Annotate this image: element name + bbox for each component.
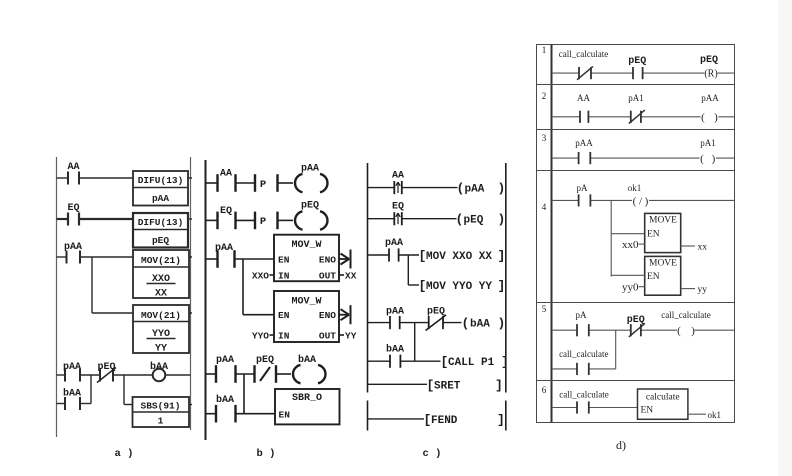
svg-text:MOV(21): MOV(21) [141, 310, 181, 321]
svg-text:XXO: XXO [252, 271, 269, 282]
svg-text:yy: yy [698, 285, 708, 295]
svg-text:a ): a ) [115, 448, 134, 460]
svg-text:EN: EN [647, 230, 660, 240]
svg-text:(: ( [700, 153, 704, 165]
svg-text:call_calculate: call_calculate [559, 390, 608, 400]
svg-text:P: P [260, 216, 266, 228]
svg-text:): ) [712, 153, 716, 165]
svg-text:EQ: EQ [220, 206, 232, 217]
svg-text:(: ( [462, 316, 470, 331]
svg-text:2: 2 [542, 91, 547, 101]
svg-text:pAA: pAA [152, 193, 169, 204]
svg-text:yy0: yy0 [622, 282, 639, 294]
svg-text:EN: EN [278, 255, 290, 266]
svg-text:pEQ: pEQ [700, 55, 718, 66]
svg-text:pEQ: pEQ [301, 201, 319, 212]
svg-text:(: ( [633, 195, 637, 207]
svg-text:bAA: bAA [63, 388, 81, 400]
svg-text:MOV YYO YY: MOV YYO YY [426, 281, 492, 293]
svg-text:5: 5 [542, 304, 547, 314]
svg-text:pA1: pA1 [628, 93, 644, 103]
svg-text:calculate: calculate [646, 393, 680, 403]
svg-text:call_calculate: call_calculate [661, 310, 710, 320]
svg-text:xx0: xx0 [622, 239, 639, 251]
svg-text:(: ( [457, 181, 465, 196]
svg-text:call_calculate: call_calculate [559, 49, 608, 59]
svg-text:): ) [498, 181, 506, 196]
svg-text:CALL P1: CALL P1 [448, 357, 495, 369]
svg-text:bAA: bAA [298, 354, 316, 366]
svg-text:pEQ: pEQ [628, 56, 646, 67]
svg-text:pAA: pAA [701, 93, 719, 103]
svg-text:]: ] [501, 355, 509, 370]
svg-text:SBS(91): SBS(91) [141, 401, 181, 412]
svg-text:bAA: bAA [470, 319, 490, 331]
svg-text:1: 1 [542, 45, 547, 55]
svg-text:ENO: ENO [319, 310, 336, 321]
svg-text:): ) [645, 195, 649, 207]
svg-text:DIFU(13): DIFU(13) [138, 175, 184, 186]
svg-text:XXO: XXO [152, 274, 170, 285]
svg-text:pAA: pAA [216, 355, 234, 366]
svg-text:pAA: pAA [301, 164, 319, 175]
svg-text:YY: YY [345, 331, 357, 342]
svg-text:pAA: pAA [64, 242, 82, 253]
svg-text:pA: pA [576, 310, 588, 320]
svg-text:): ) [498, 316, 506, 331]
svg-text:SRET: SRET [434, 380, 461, 392]
svg-text:3: 3 [542, 133, 547, 143]
svg-text:pEQ: pEQ [627, 315, 645, 326]
svg-text:]: ] [498, 279, 506, 294]
svg-text:EQ: EQ [67, 203, 79, 214]
svg-text:P: P [260, 179, 266, 191]
svg-text:pAA: pAA [386, 307, 404, 318]
svg-text:4: 4 [542, 202, 547, 212]
svg-text:pA1: pA1 [700, 138, 716, 148]
svg-text:c ): c ) [423, 448, 442, 460]
svg-text:pEQ: pEQ [427, 307, 445, 318]
svg-text:pAA: pAA [575, 138, 593, 148]
svg-text:pEQ: pEQ [256, 355, 274, 366]
svg-text:YY: YY [155, 344, 167, 355]
svg-text:pEQ: pEQ [464, 215, 484, 227]
svg-text:IN: IN [278, 331, 290, 342]
svg-text:): ) [498, 212, 506, 227]
svg-text:AA: AA [220, 169, 232, 180]
svg-text:bAA: bAA [216, 394, 234, 406]
svg-text:bAA: bAA [150, 361, 168, 373]
svg-text:xx: xx [698, 243, 708, 253]
svg-text:pAA: pAA [215, 243, 233, 254]
svg-text:call_calculate: call_calculate [559, 349, 608, 359]
svg-text:YYO: YYO [252, 331, 269, 342]
svg-text:EN: EN [278, 310, 290, 321]
svg-text:pA: pA [577, 183, 589, 193]
svg-text:SBR_O: SBR_O [292, 393, 322, 404]
svg-text:EN: EN [647, 272, 660, 282]
svg-text:MOVE: MOVE [649, 216, 677, 226]
svg-text:(R): (R) [704, 68, 717, 79]
svg-text:]: ] [497, 412, 505, 427]
svg-text:(: ( [701, 112, 705, 124]
svg-text:MOV_W: MOV_W [291, 240, 321, 251]
svg-text:YYO: YYO [152, 329, 170, 340]
svg-text:IN: IN [278, 271, 290, 282]
svg-text:pAA: pAA [63, 362, 81, 373]
svg-text:pEQ: pEQ [152, 235, 169, 246]
svg-text:MOV(21): MOV(21) [141, 255, 181, 266]
svg-text:bAA: bAA [386, 344, 404, 356]
svg-text:(: ( [456, 212, 464, 227]
svg-text:OUT: OUT [319, 331, 336, 342]
svg-text:ok1: ok1 [628, 183, 642, 193]
svg-text:1: 1 [158, 416, 164, 427]
svg-text:): ) [691, 325, 695, 337]
svg-text:FEND: FEND [431, 415, 458, 427]
svg-text:XX: XX [345, 271, 357, 282]
svg-text:AA: AA [577, 93, 590, 103]
svg-text:OUT: OUT [319, 271, 336, 282]
svg-text:EQ: EQ [392, 202, 404, 213]
svg-text:): ) [714, 112, 718, 124]
svg-text:AA: AA [392, 171, 404, 182]
svg-text:DIFU(13): DIFU(13) [138, 217, 184, 228]
svg-text:6: 6 [542, 385, 547, 395]
svg-text:pAA: pAA [465, 184, 485, 196]
svg-text:AA: AA [67, 162, 79, 173]
svg-text:MOV_W: MOV_W [291, 297, 321, 308]
svg-text:MOVE: MOVE [649, 259, 677, 269]
svg-text:b ): b ) [257, 448, 276, 460]
svg-text:ENO: ENO [319, 255, 336, 266]
svg-text:EN: EN [279, 410, 291, 421]
svg-text:MOV XXO XX: MOV XXO XX [426, 251, 492, 263]
svg-text:pEQ: pEQ [97, 362, 115, 373]
svg-text:(: ( [677, 325, 681, 337]
svg-text:d): d) [616, 438, 626, 452]
svg-text:EN: EN [641, 406, 654, 416]
svg-text:ok1: ok1 [708, 410, 722, 420]
svg-text:XX: XX [155, 289, 167, 300]
svg-text:]: ] [495, 378, 503, 393]
svg-text:pAA: pAA [385, 238, 403, 249]
svg-text:]: ] [498, 249, 506, 264]
